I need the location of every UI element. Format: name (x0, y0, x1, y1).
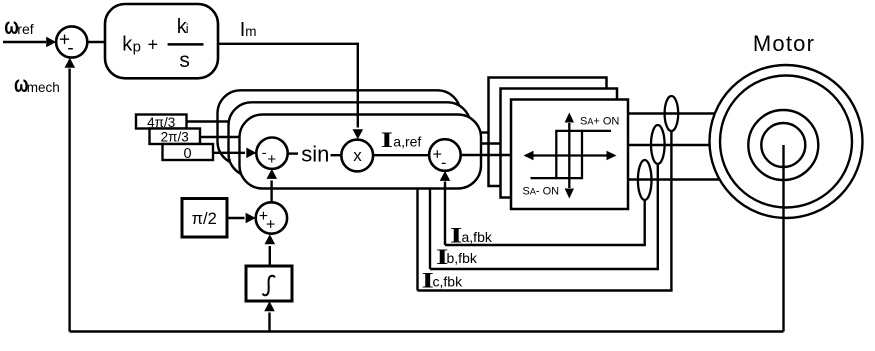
wire bottom to integrator (268, 313, 270, 332)
motor rotor outer (748, 110, 818, 180)
wire sensor b drop (657, 164, 659, 270)
sin generator block middle (229, 102, 471, 176)
svg-text:ref: ref (17, 21, 33, 37)
current sensor phase c (638, 160, 652, 200)
svg-text:sin: sin (301, 141, 329, 166)
svg-text:s: s (179, 49, 190, 72)
wire multiplier to S3 (373, 154, 430, 156)
current sensor phase b (651, 125, 665, 164)
integrator block (246, 266, 292, 301)
svg-text:-: - (67, 38, 73, 59)
svg-text:2π/3: 2π/3 (161, 130, 189, 145)
svg-text:π/2: π/2 (192, 210, 217, 228)
motor stator outer (710, 65, 863, 218)
wire S1 to PI (87, 41, 106, 44)
summing junction S3 (current + -) (429, 139, 461, 171)
wire S4 to S2 (270, 181, 272, 203)
svg-text:+: + (266, 217, 275, 234)
wire sensor a drop (670, 131, 672, 291)
wire S3 to front hysteresis (461, 154, 513, 156)
sin generator block front (240, 115, 482, 189)
current sensor phase a (665, 96, 679, 131)
svg-text:+: + (267, 151, 276, 168)
wire omega_ref input (3, 41, 46, 44)
svg-text:SA- ON: SA- ON (523, 186, 560, 198)
wire omega_mech feedback vertical (68, 69, 70, 332)
svg-text:a,ref: a,ref (393, 133, 421, 149)
hysteresis vertical axis (568, 123, 570, 188)
phase box 2pi/3 (150, 129, 201, 145)
wire pi/2 to S4 (227, 217, 245, 219)
wire integrator to S4 (269, 246, 271, 266)
wire 0 to summing junction S2 (213, 152, 245, 154)
svg-text:a,fbk: a,fbk (462, 229, 493, 245)
hysteresis horizontal axis (532, 154, 608, 156)
hysteresis comparator front (511, 100, 628, 210)
wire motor shaft drop (782, 145, 784, 332)
svg-text:I: I (381, 128, 393, 152)
svg-text:c,fbk: c,fbk (433, 274, 464, 290)
svg-text:0: 0 (183, 146, 191, 162)
svg-text:i: i (186, 21, 189, 36)
summing junction S1 (56, 26, 87, 57)
wire back block to back hysteresis (481, 131, 490, 133)
wire Im from PI output (218, 43, 359, 45)
hysteresis comparator back (489, 78, 607, 187)
wire Ib,fbk (430, 268, 659, 270)
wire sensor c drop (644, 200, 646, 246)
hysteresis comparator middle (501, 89, 618, 198)
wire sin to multiplier (331, 154, 343, 156)
phase box 0 (163, 144, 214, 160)
svg-text:-: - (441, 154, 446, 171)
wire phase b to motor (628, 144, 710, 146)
pi/2 offset block (182, 199, 227, 238)
wire middle block to middle hysteresis (481, 142, 502, 144)
sin generator block back (218, 90, 461, 164)
wire speed feedback bottom (70, 330, 784, 332)
motor rotor inner (761, 123, 805, 167)
svg-text:x: x (353, 146, 362, 165)
hysteresis loop (556, 130, 611, 132)
wire Ia,fbk (445, 244, 646, 246)
svg-text:m: m (245, 24, 256, 39)
multiplier X (341, 140, 373, 172)
svg-text:mech: mech (27, 80, 60, 95)
wire 4pi/3 to back block (186, 120, 229, 122)
wire Ic,fbk (418, 289, 673, 291)
summing junction S2 (phase - angle +) (256, 138, 287, 169)
svg-text:Motor: Motor (753, 31, 815, 56)
svg-text:+: + (148, 35, 159, 55)
wire phase c to motor (628, 178, 720, 180)
wire phase a to motor (628, 112, 715, 114)
svg-text:SA+ ON: SA+ ON (580, 116, 619, 128)
svg-text:-: - (262, 145, 267, 162)
wire S2 to sin (288, 152, 299, 154)
svg-text:b,fbk: b,fbk (447, 250, 478, 266)
summing junction S4 (+ +) (256, 202, 287, 233)
PI controller block kp + ki/s (105, 4, 218, 78)
wire Im vertical into multiplier (357, 43, 359, 128)
motor stator inner ring (720, 76, 852, 208)
phase box 4pi/3 (136, 115, 187, 129)
svg-text:p: p (133, 38, 141, 55)
wire 2pi/3 to middle block (200, 136, 240, 138)
